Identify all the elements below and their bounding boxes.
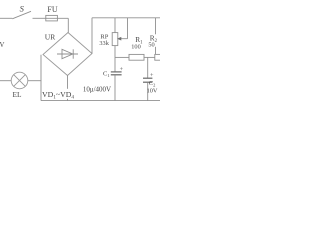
svg-text:100: 100 bbox=[131, 43, 140, 50]
wire: bridge right corner up to DC+ rail bbox=[91, 18, 93, 54]
wire: bridge bottom corner down to bottom rail bbox=[67, 76, 69, 101]
svg-text:V: V bbox=[0, 42, 5, 49]
background bbox=[0, 0, 160, 110]
wire: lamp to bridge-left vertical bbox=[28, 80, 42, 82]
wire: DC+ top rail bbox=[92, 17, 160, 19]
lamp EL circle with cross bbox=[11, 72, 28, 89]
label R2 (white bg breaks branch wire) bbox=[148, 33, 158, 48]
wire: C2 junction down bbox=[147, 57, 149, 78]
svg-text:EL: EL bbox=[12, 90, 22, 99]
wire: R1 to R2 bbox=[144, 56, 155, 58]
svg-text:+: + bbox=[120, 66, 124, 73]
diode symbol inside UR bbox=[57, 53, 78, 55]
svg-text:50: 50 bbox=[148, 42, 154, 49]
wire: bridge left corner down to lamp node and bottom rail bbox=[40, 55, 42, 101]
resistor R2 body bbox=[155, 54, 162, 60]
switch S blade bbox=[12, 11, 31, 18]
wire: AC live-in left lead bbox=[0, 17, 12, 19]
svg-text:VD1~VD4: VD1~VD4 bbox=[42, 90, 74, 101]
svg-text:S: S bbox=[20, 4, 25, 14]
capacitor C2 plates bbox=[143, 77, 152, 79]
wire: R2 branch from rail bbox=[155, 18, 157, 55]
resistor R1 body bbox=[129, 54, 144, 60]
svg-text:33k: 33k bbox=[99, 40, 109, 47]
bridge rectifier UR diamond bbox=[43, 33, 92, 76]
svg-text:UR: UR bbox=[45, 32, 55, 41]
wire: node to R1 bbox=[115, 56, 129, 58]
wire: C1 to bottom rail bbox=[114, 75, 116, 100]
capacitor C1 plates bbox=[111, 71, 122, 73]
potentiometer RP body bbox=[112, 33, 118, 46]
svg-text:10V: 10V bbox=[147, 87, 158, 94]
label VD1~VD4 bbox=[42, 89, 84, 101]
fuse FU body bbox=[46, 15, 58, 21]
svg-text:FU: FU bbox=[47, 5, 57, 14]
wire: bottom rail bbox=[41, 100, 160, 102]
wire: RP bottom lead down through node bbox=[114, 46, 116, 72]
wire: corner down to bridge top bbox=[67, 18, 69, 33]
wire: RP top lead from rail bbox=[114, 18, 116, 33]
svg-text:10μ/400V: 10μ/400V bbox=[83, 85, 111, 93]
wire: AC neutral-in to lamp bbox=[0, 80, 11, 82]
fuse FU through-wire bbox=[46, 17, 68, 19]
wire: C2 to bottom rail bbox=[147, 83, 149, 101]
wire: switch to fuse bbox=[33, 17, 47, 19]
RP wiper arrow line and return to rail bbox=[119, 18, 128, 39]
RP wiper arrowhead bbox=[117, 37, 121, 41]
svg-text:+: + bbox=[150, 72, 154, 79]
